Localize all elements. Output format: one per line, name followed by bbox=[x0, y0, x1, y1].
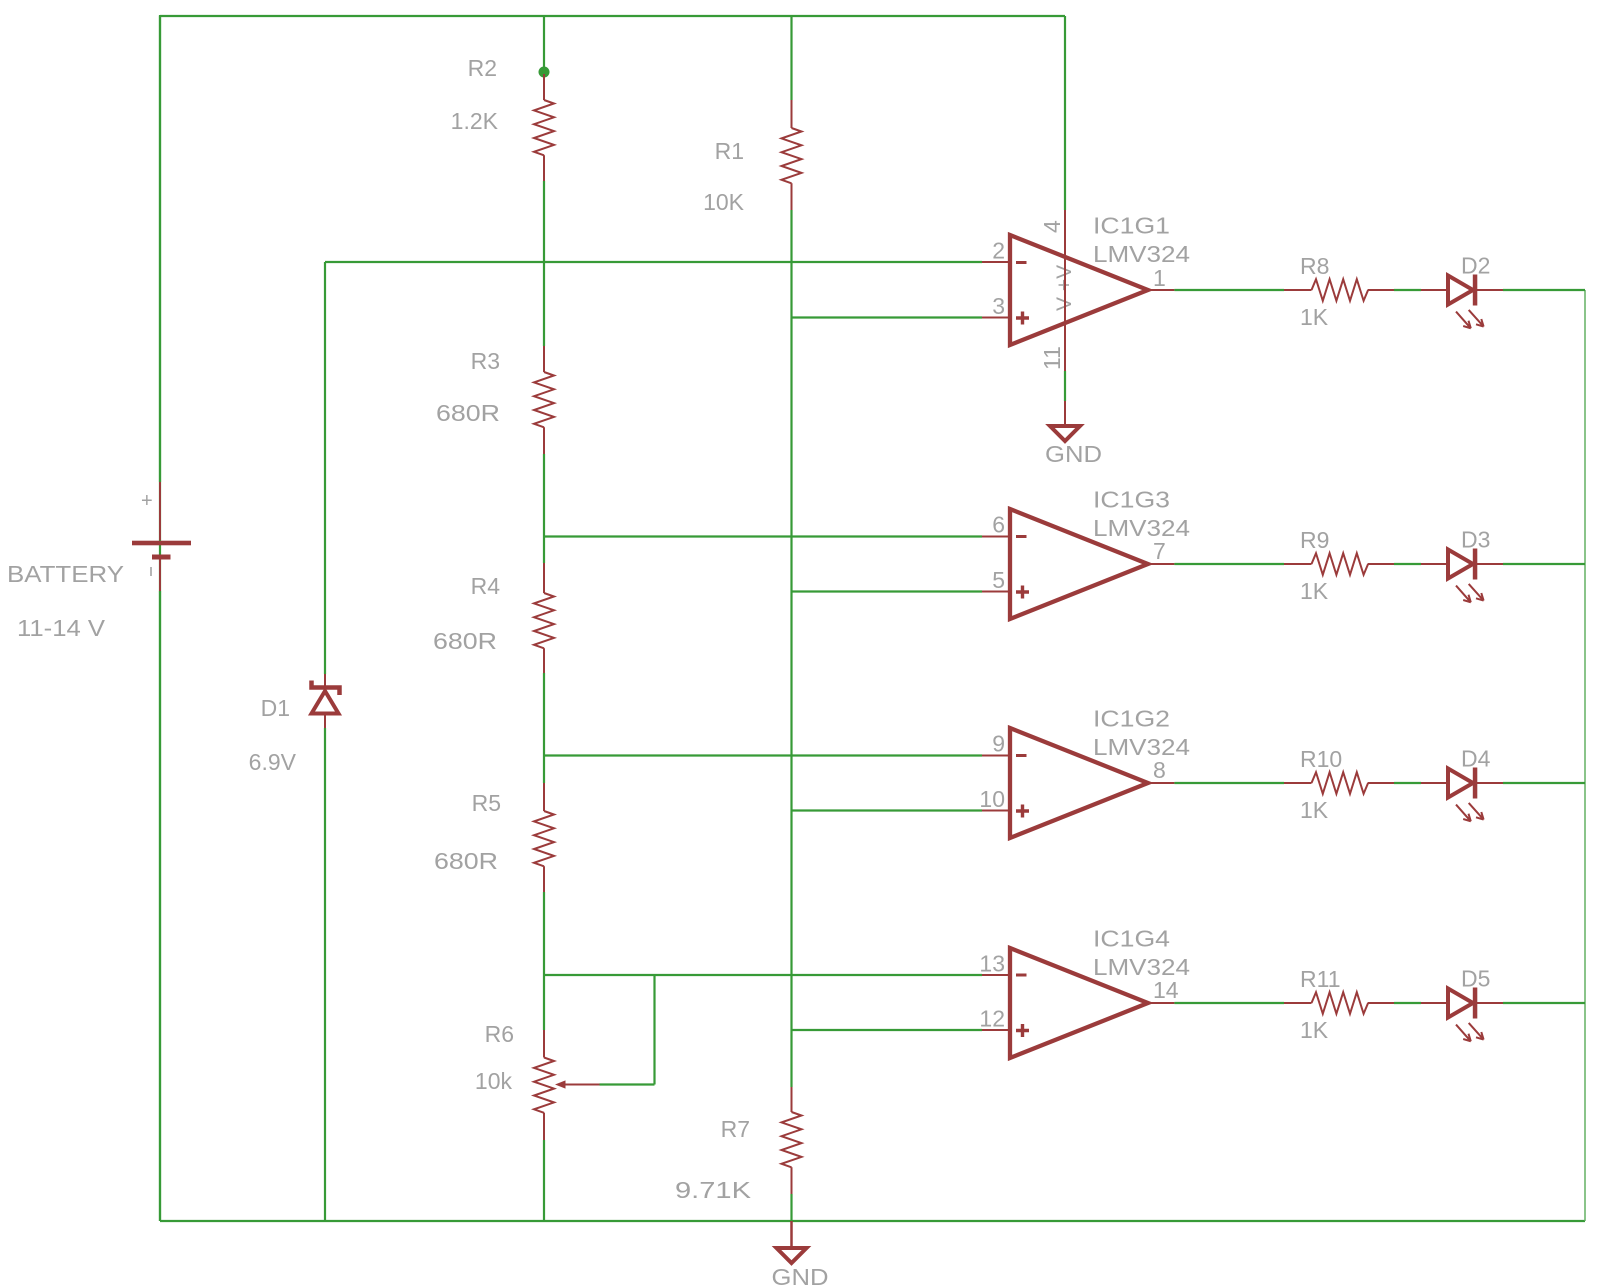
op-amp IC1G2 bbox=[979, 706, 1190, 839]
svg-text:6: 6 bbox=[992, 512, 1005, 538]
svg-text:1: 1 bbox=[1153, 265, 1166, 291]
svg-text:GND: GND bbox=[772, 1264, 829, 1287]
node junction dot bbox=[539, 67, 550, 78]
wire wiper horizontal bbox=[600, 1083, 655, 1085]
battery B1 bbox=[132, 482, 191, 591]
wire battery bottom bbox=[159, 591, 161, 1221]
svg-text:10k: 10k bbox=[475, 1068, 513, 1094]
wire D1 bottom bbox=[324, 728, 326, 1221]
wire tap R5R6 to pin13 bbox=[544, 974, 982, 976]
wire bottom bus bbox=[160, 1220, 1585, 1222]
ground GND under IC1G1 bbox=[1045, 426, 1102, 467]
wire tap R3R4 to pin6 bbox=[544, 535, 982, 537]
potentiometer R6 bbox=[534, 1030, 554, 1140]
pin 13 lead bbox=[982, 974, 1009, 976]
svg-text:D4: D4 bbox=[1461, 746, 1491, 772]
wire R9 to D3 bbox=[1394, 563, 1421, 565]
svg-text:R8: R8 bbox=[1300, 253, 1329, 279]
svg-text:13: 13 bbox=[979, 951, 1005, 977]
svg-text:IC1G3: IC1G3 bbox=[1093, 487, 1170, 513]
svg-text:1.2K: 1.2K bbox=[451, 108, 499, 134]
ground GND bottom bbox=[772, 1221, 829, 1287]
pin 3 lead bbox=[982, 317, 1009, 319]
pin 9 lead bbox=[982, 755, 1009, 757]
wire pin3 bbox=[792, 316, 983, 318]
wire pin11 green bbox=[1064, 371, 1066, 401]
resistor R2 bbox=[534, 74, 554, 181]
wire R11 to D5 bbox=[1394, 1002, 1421, 1004]
svg-text:8: 8 bbox=[1153, 757, 1166, 783]
wire R10 to D4 bbox=[1394, 782, 1421, 784]
pin 2 lead bbox=[982, 261, 1009, 263]
op-amp IC1G4 bbox=[979, 926, 1190, 1059]
svg-text:12: 12 bbox=[979, 1006, 1005, 1032]
svg-text:R2: R2 bbox=[468, 55, 497, 81]
wire battery top bbox=[159, 16, 161, 482]
pin 10 lead bbox=[982, 810, 1009, 812]
resistor R9 bbox=[1284, 553, 1394, 575]
wire ref bus to pin2 bbox=[325, 261, 982, 263]
svg-text:GND: GND bbox=[1045, 441, 1102, 467]
svg-text:IC1G2: IC1G2 bbox=[1093, 706, 1170, 732]
pin 12 lead bbox=[982, 1029, 1009, 1031]
pin 5 lead bbox=[982, 591, 1009, 593]
wire out7 bbox=[1174, 563, 1284, 565]
wire R5 to R6 bbox=[543, 892, 545, 1030]
wire D5 to right bus bbox=[1503, 1002, 1585, 1004]
svg-text:9.71K: 9.71K bbox=[675, 1177, 752, 1203]
wire top bus bbox=[160, 15, 1065, 17]
output row 2 : pin7 lead bbox=[1148, 563, 1174, 565]
svg-text:R10: R10 bbox=[1300, 746, 1342, 772]
svg-text:11: 11 bbox=[1039, 346, 1065, 370]
resistor R7 bbox=[782, 1087, 802, 1194]
output row 4 : pin14 lead bbox=[1148, 1002, 1174, 1004]
svg-text:D3: D3 bbox=[1461, 527, 1490, 553]
wire R1 top bbox=[790, 16, 792, 100]
LED D2 bbox=[1421, 253, 1503, 329]
svg-text:3: 3 bbox=[992, 293, 1005, 319]
svg-text:R11: R11 bbox=[1300, 966, 1341, 992]
LED D5 bbox=[1421, 966, 1503, 1042]
wire pin5 bbox=[792, 590, 983, 592]
wire out8 bbox=[1174, 782, 1284, 784]
wire pin10 bbox=[792, 809, 983, 811]
resistor R8 bbox=[1284, 279, 1394, 301]
wire D1 top bbox=[324, 262, 326, 674]
wire R7 bottom bbox=[790, 1194, 792, 1221]
svg-text:D5: D5 bbox=[1461, 966, 1490, 992]
R6 wiper arrow bbox=[555, 1080, 600, 1088]
svg-text:11-14 V: 11-14 V bbox=[17, 615, 106, 641]
svg-text:10: 10 bbox=[979, 786, 1005, 812]
svg-text:D1: D1 bbox=[261, 695, 290, 721]
wire R4 to R5 bbox=[543, 673, 545, 783]
svg-text:680R: 680R bbox=[433, 628, 497, 654]
wire D4 to right bus bbox=[1503, 782, 1585, 784]
resistor R4 bbox=[534, 563, 554, 673]
svg-text:1K: 1K bbox=[1300, 1017, 1329, 1043]
svg-text:R5: R5 bbox=[472, 790, 501, 816]
svg-text:R6: R6 bbox=[485, 1021, 514, 1047]
wire R8 to D2 bbox=[1394, 289, 1421, 291]
wire R2 to R3 bbox=[543, 181, 545, 346]
svg-text:6.9V: 6.9V bbox=[249, 749, 297, 775]
LED D3 bbox=[1421, 527, 1503, 603]
svg-text:14: 14 bbox=[1153, 977, 1179, 1003]
zener diode D1 bbox=[312, 674, 340, 728]
svg-text:R4: R4 bbox=[471, 573, 501, 599]
svg-text:R1: R1 bbox=[715, 138, 744, 164]
pin 6 lead bbox=[982, 536, 1009, 538]
svg-text:1K: 1K bbox=[1300, 304, 1329, 330]
wire left bus bbox=[159, 15, 161, 1221]
wire R2 top bbox=[543, 16, 545, 76]
wire R6 bottom bbox=[543, 1140, 545, 1221]
wire V+ rail green bbox=[1064, 16, 1066, 210]
svg-text:4: 4 bbox=[1039, 220, 1065, 233]
svg-text:5: 5 bbox=[992, 567, 1005, 593]
svg-text:9: 9 bbox=[992, 731, 1005, 757]
pin 11 lead red bbox=[1064, 401, 1066, 426]
svg-text:R9: R9 bbox=[1300, 527, 1329, 553]
resistor R10 bbox=[1284, 772, 1394, 794]
svg-text:1K: 1K bbox=[1300, 578, 1329, 604]
svg-text:LMV324: LMV324 bbox=[1093, 515, 1190, 541]
wire wiper vertical bbox=[653, 975, 655, 1085]
svg-text:LMV324: LMV324 bbox=[1093, 734, 1190, 760]
svg-text:BATTERY: BATTERY bbox=[7, 561, 124, 587]
svg-text:+: + bbox=[141, 490, 153, 512]
svg-text:10K: 10K bbox=[703, 189, 745, 215]
resistor R5 bbox=[534, 783, 554, 892]
LED D4 bbox=[1421, 746, 1503, 822]
svg-text:IC1G4: IC1G4 bbox=[1093, 926, 1170, 952]
wire out14 bbox=[1174, 1002, 1284, 1004]
wire out1 bbox=[1174, 289, 1284, 291]
resistor R3 bbox=[534, 346, 554, 454]
svg-text:D2: D2 bbox=[1461, 253, 1490, 279]
output row 1 : pin1 lead bbox=[1148, 289, 1174, 291]
svg-text:IC1G1: IC1G1 bbox=[1093, 213, 1170, 239]
resistor R11 bbox=[1284, 992, 1394, 1014]
wire pin12 bbox=[792, 1029, 983, 1031]
svg-text:7: 7 bbox=[1153, 538, 1166, 564]
svg-text:R3: R3 bbox=[471, 348, 500, 374]
svg-text:680R: 680R bbox=[436, 400, 500, 426]
svg-text:R7: R7 bbox=[721, 1116, 750, 1142]
svg-text:2: 2 bbox=[992, 238, 1005, 264]
wire D2 to right bus bbox=[1503, 289, 1585, 291]
wire R3 to R4 bbox=[543, 454, 545, 563]
pin 4 rail red bbox=[1064, 210, 1066, 371]
resistor R1 bbox=[782, 100, 802, 210]
op-amp IC1G3 bbox=[992, 487, 1190, 620]
wire right bus bbox=[1584, 290, 1586, 1221]
op-amp IC1G1 bbox=[992, 213, 1190, 371]
wire tap R4R5 to pin9 bbox=[544, 754, 982, 756]
svg-text:1K: 1K bbox=[1300, 797, 1329, 823]
output row 3 : pin8 lead bbox=[1148, 782, 1174, 784]
wire R1 to R7 bbox=[790, 210, 792, 1087]
wire D3 to right bus bbox=[1503, 563, 1585, 565]
svg-text:LMV324: LMV324 bbox=[1093, 241, 1190, 267]
svg-text:680R: 680R bbox=[434, 848, 498, 874]
